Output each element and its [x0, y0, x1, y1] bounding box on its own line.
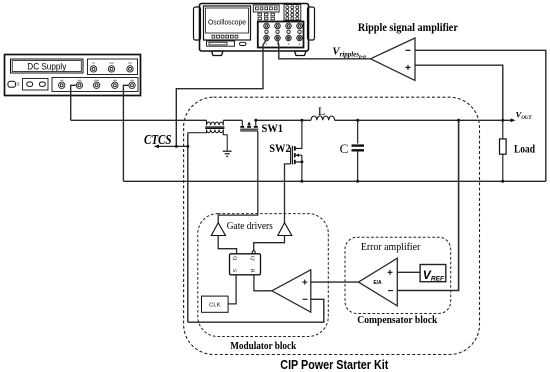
svg-text:Error amplifier: Error amplifier — [361, 241, 421, 253]
svg-text:Ripple signal amplifier: Ripple signal amplifier — [358, 20, 459, 34]
svg-text:S: S — [231, 269, 237, 272]
svg-text:CTCS: CTCS — [144, 132, 172, 147]
svg-text:Q: Q — [231, 256, 237, 260]
svg-text:R: R — [249, 269, 255, 273]
svg-text:Compensator block: Compensator block — [357, 314, 438, 326]
svg-text:SW2: SW2 — [269, 143, 291, 155]
svg-text:L: L — [318, 104, 325, 118]
svg-text:Oscilloscope: Oscilloscope — [208, 17, 246, 26]
svg-text:SW1: SW1 — [262, 123, 284, 135]
svg-text:DC Supply: DC Supply — [27, 62, 66, 73]
svg-text:Load: Load — [514, 142, 535, 156]
svg-text:CLK: CLK — [209, 302, 220, 308]
svg-text:CIP Power Starter Kit: CIP Power Starter Kit — [280, 357, 389, 372]
svg-text:Modulator block: Modulator block — [230, 340, 297, 352]
svg-text:Gate drivers: Gate drivers — [227, 220, 273, 232]
svg-text:E/A: E/A — [373, 280, 382, 286]
svg-text:C: C — [340, 141, 349, 156]
svg-text:Q': Q' — [249, 256, 255, 261]
